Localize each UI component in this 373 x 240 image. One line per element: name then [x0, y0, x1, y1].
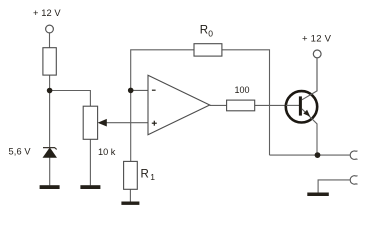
op-amp U1	[148, 75, 210, 134]
wire: wiper to op-amp + input	[105, 122, 149, 124]
transistor Q1 circle	[286, 91, 317, 122]
potentiometer wiper arrow	[98, 119, 107, 127]
potentiometer body 10k	[83, 106, 97, 139]
svg-text:1: 1	[150, 172, 155, 182]
svg-text:R: R	[200, 25, 208, 37]
node A junction dot	[47, 88, 53, 94]
svg-text:+ 12 V: + 12 V	[33, 8, 61, 18]
op-amp - sign	[152, 89, 156, 91]
wire: emitter output line	[270, 154, 350, 156]
resistor R0 (feedback)	[194, 44, 222, 56]
wire: feedback up and right to R0	[131, 50, 194, 91]
zener diode D1 5,6V	[43, 148, 57, 158]
wire: inverting node vertical down to R1	[130, 90, 132, 161]
output terminal upper	[350, 151, 357, 160]
wire: node A to potentiometer top	[50, 91, 91, 107]
wire: zener anode to ground	[49, 157, 51, 185]
output terminal lower	[350, 176, 357, 185]
transistor emitter arrow	[303, 110, 310, 117]
wire: R bottom to node A and down to zener	[49, 75, 51, 147]
svg-text:+ 12 V: + 12 V	[302, 34, 332, 45]
wire: node B to op-amp - input	[131, 89, 148, 91]
svg-text:5,6 V: 5,6 V	[9, 147, 32, 157]
wire: R1 bottom to ground	[129, 189, 131, 201]
svg-text:0: 0	[208, 28, 213, 38]
wire: R0 right then down to emitter line	[222, 50, 270, 155]
resistor 100	[227, 100, 255, 111]
resistor R1	[124, 161, 138, 189]
svg-text:R: R	[141, 168, 149, 180]
ground (lower output)	[307, 193, 329, 197]
ground (potentiometer)	[80, 185, 100, 189]
wire: +12V right terminal down to collector	[316, 58, 318, 91]
node C junction dot (emitter output)	[315, 152, 321, 158]
wire: potentiometer bottom to ground	[89, 139, 91, 185]
ground (R1)	[121, 202, 139, 205]
op-amp + sign	[152, 121, 157, 126]
transistor emitter lead	[302, 109, 317, 155]
terminal +12V top-left	[46, 25, 54, 33]
transistor base bar	[299, 96, 302, 115]
svg-text:10 k: 10 k	[98, 147, 116, 157]
terminal +12V top-right	[313, 50, 321, 58]
svg-text:100: 100	[235, 85, 250, 95]
transistor base wire inside circle	[286, 104, 299, 106]
wire: +12V terminal to R top	[49, 33, 51, 48]
wire: lower output line to terminal	[318, 180, 350, 193]
ground (zener)	[40, 185, 60, 189]
wire: op-amp output to 100 resistor	[210, 104, 227, 106]
node B junction dot (inverting input)	[128, 88, 134, 94]
transistor collector lead	[302, 58, 317, 100]
wire: 100 resistor to transistor base	[255, 104, 300, 106]
resistor (series, top-left)	[43, 48, 56, 75]
